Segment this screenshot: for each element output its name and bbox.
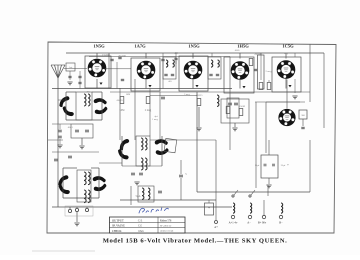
- svg-text:.0001: .0001: [67, 126, 73, 129]
- svg-text:1C5G: 1C5G: [282, 44, 294, 49]
- svg-text:3 meg: 3 meg: [184, 93, 191, 96]
- svg-text:1A7G: 1A7G: [134, 44, 146, 49]
- svg-text:1N5G: 1N5G: [93, 44, 105, 49]
- svg-text:C/L: C/L: [138, 218, 143, 222]
- svg-text:15µf: 15µf: [255, 164, 260, 167]
- svg-text:B+ 90v: B+ 90v: [258, 222, 267, 225]
- svg-text:+: +: [287, 163, 289, 167]
- svg-text:5µA: 5µA: [135, 195, 140, 198]
- svg-text:SP. VALVE: SP. VALVE: [112, 225, 125, 228]
- svg-text:250M: 250M: [239, 105, 246, 108]
- svg-text:Ohm: Ohm: [138, 230, 143, 233]
- svg-text:+: +: [208, 206, 210, 210]
- svg-text:1 meg: 1 meg: [152, 118, 159, 121]
- svg-text:CHECK: CHECK: [112, 230, 121, 233]
- svg-text:A+: A+: [214, 226, 218, 229]
- svg-text:50M: 50M: [126, 94, 130, 96]
- svg-text:A+1·4v: A+1·4v: [229, 222, 238, 225]
- svg-text:Riders 578: Riders 578: [160, 219, 172, 222]
- svg-text:B−: B−: [279, 222, 283, 225]
- svg-text:.0005: .0005: [234, 50, 240, 52]
- svg-text:2 meg: 2 meg: [266, 70, 273, 73]
- svg-text:A−: A−: [247, 222, 251, 225]
- svg-text:1H5G: 1H5G: [237, 44, 249, 49]
- svg-text:SF 4163 for: SF 4163 for: [160, 224, 172, 227]
- svg-text:4µf: 4µf: [154, 115, 157, 118]
- svg-text:25µf: 25µf: [281, 164, 286, 167]
- svg-text:OUTPUT: OUTPUT: [112, 218, 124, 222]
- svg-text:1N5G: 1N5G: [188, 44, 200, 49]
- svg-text:2 meg: 2 meg: [145, 109, 152, 112]
- svg-text:C/L: C/L: [138, 225, 143, 228]
- svg-text:50M: 50M: [120, 109, 126, 112]
- svg-text:Model 15B 6-Volt Vibrator Mode: Model 15B 6-Volt Vibrator Model.—THE SKY…: [103, 238, 288, 245]
- svg-text:similar circuit: similar circuit: [160, 229, 174, 232]
